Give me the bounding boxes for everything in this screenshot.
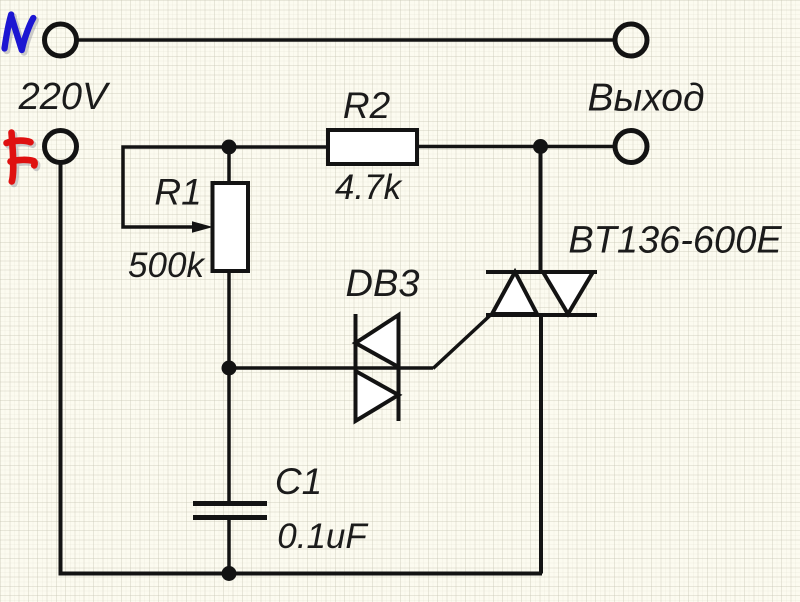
capacitor C1 top plate — [193, 501, 267, 506]
svg-text:C1: C1 — [275, 461, 322, 502]
triac right triangle — [543, 272, 593, 314]
wire junction down to potentiometer — [227, 147, 231, 183]
wire wiper loop — [123, 147, 229, 227]
svg-text:R1: R1 — [154, 172, 201, 213]
wire triac bottom anode — [539, 315, 543, 574]
svg-text:DB3: DB3 — [346, 263, 420, 305]
svg-text:220V: 220V — [18, 76, 111, 118]
junction dot node A — [222, 361, 237, 376]
wire pot bottom to node — [227, 271, 231, 368]
junction dot R1 top — [222, 140, 237, 155]
junction dot triac top — [533, 139, 548, 154]
terminal F — [45, 131, 77, 163]
diac DB3 lower triangle — [356, 371, 399, 421]
wire junction to R2 — [229, 145, 328, 149]
triac bottom bar — [486, 313, 597, 317]
svg-text:BT136-600E: BT136-600E — [568, 220, 782, 262]
junction dot bottom rail — [222, 566, 237, 581]
wire cap to bottom rail — [227, 518, 231, 574]
wire node to diac — [229, 366, 433, 370]
terminal output top — [615, 24, 647, 56]
wire triac top anode — [539, 147, 543, 273]
wire left side and bottom rail — [61, 163, 543, 574]
svg-text:500k: 500k — [128, 246, 205, 285]
wire R2 to output row — [417, 145, 614, 149]
wiper arrowhead — [192, 221, 213, 232]
label N handwritten — [5, 15, 36, 53]
resistor R2 body — [328, 130, 417, 164]
svg-text:Выход: Выход — [587, 77, 704, 120]
diac DB3 upper triangle — [356, 315, 399, 367]
label F handwritten — [7, 133, 37, 184]
diac DB3 right bar — [397, 314, 401, 421]
svg-text:4.7k: 4.7k — [335, 168, 403, 207]
triac top bar — [486, 270, 597, 274]
capacitor C1 bottom plate — [193, 515, 267, 520]
wire node down to capacitor — [227, 368, 231, 503]
svg-text:R2: R2 — [343, 85, 391, 126]
wire top rail N to output — [77, 38, 614, 42]
svg-text:0.1uF: 0.1uF — [277, 517, 369, 556]
terminal N — [45, 24, 77, 56]
diac DB3 left bar — [354, 314, 358, 421]
triac left triangle — [492, 272, 537, 314]
wire diac to triac gate — [433, 316, 490, 369]
potentiometer R1 body — [213, 183, 249, 271]
terminal output bottom — [615, 131, 647, 163]
